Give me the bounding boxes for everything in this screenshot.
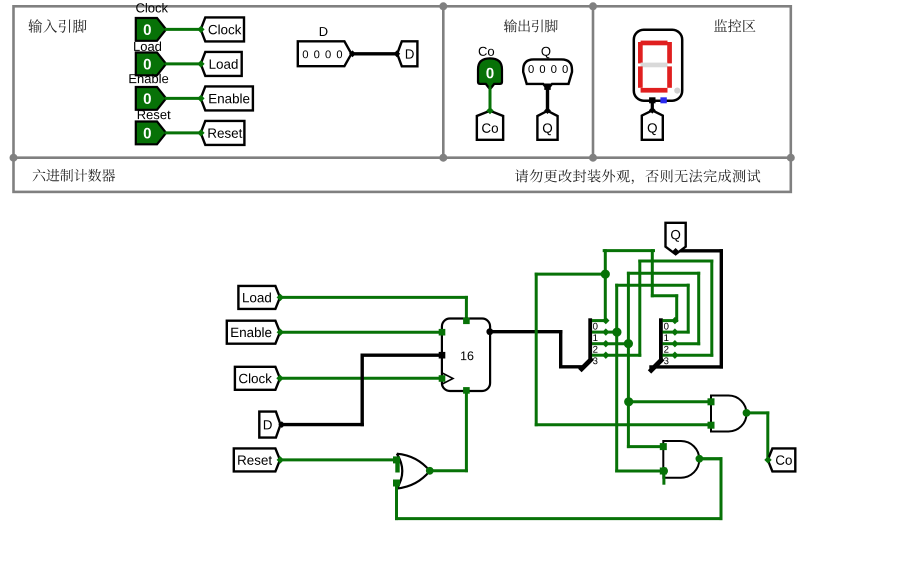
wire xyxy=(604,251,607,321)
port pad xyxy=(708,398,715,405)
tunnel Q xyxy=(666,223,686,254)
wire junction xyxy=(743,409,751,417)
label Reset xyxy=(138,110,171,119)
wire xyxy=(697,273,700,343)
wire xyxy=(351,52,397,55)
wire xyxy=(561,365,582,368)
connection port xyxy=(671,352,678,359)
tunnel Reset xyxy=(234,448,280,471)
wire xyxy=(280,377,442,380)
connection port xyxy=(602,328,609,335)
input pin Clock xyxy=(136,18,166,41)
connection port xyxy=(671,328,678,335)
wire xyxy=(640,260,712,263)
connection port xyxy=(393,50,400,57)
label D xyxy=(320,27,328,36)
wire xyxy=(166,131,201,134)
wire xyxy=(465,297,468,319)
splitter S1 (left, fan-out) xyxy=(588,318,592,360)
wire xyxy=(615,285,618,332)
wire xyxy=(604,249,653,252)
label Enable xyxy=(129,74,168,84)
tunnel Q xyxy=(642,110,663,139)
tunnel Load xyxy=(201,52,242,76)
connection port xyxy=(197,60,204,67)
frame junction dot xyxy=(589,2,597,10)
wire xyxy=(699,457,721,460)
port pad xyxy=(439,375,446,382)
connection port xyxy=(602,340,609,347)
frame junction dot xyxy=(589,154,597,162)
wire xyxy=(652,294,676,297)
wire xyxy=(430,469,467,472)
tunnel D xyxy=(397,41,417,66)
wire xyxy=(166,28,201,31)
title 输入引脚 xyxy=(28,19,86,33)
panel frame outer xyxy=(14,6,791,192)
wire xyxy=(559,332,562,367)
connection port xyxy=(671,340,678,347)
frame junction dot xyxy=(10,154,18,162)
wire xyxy=(362,354,442,357)
connection port xyxy=(602,352,609,359)
tunnel Co xyxy=(477,111,503,140)
port pad xyxy=(439,352,446,359)
and-gate G2 xyxy=(711,396,747,432)
wire xyxy=(675,354,712,357)
port pad xyxy=(463,318,470,325)
label Q xyxy=(542,47,551,59)
input pin Load xyxy=(136,53,166,76)
port pad xyxy=(660,468,667,475)
wire xyxy=(465,391,468,471)
wire xyxy=(720,251,723,367)
wire xyxy=(628,445,663,448)
splitter S2 (right, combiner) xyxy=(659,318,663,360)
frame junction dot xyxy=(787,154,795,162)
wire xyxy=(627,344,630,402)
counter U2 (mod-16) xyxy=(442,319,490,392)
wire xyxy=(627,402,630,447)
wire xyxy=(710,261,713,355)
connection port xyxy=(276,375,283,382)
wire xyxy=(535,274,538,425)
frame junction dot xyxy=(439,2,447,10)
wire xyxy=(280,331,442,334)
wire xyxy=(617,284,689,287)
connection port xyxy=(349,50,356,57)
wire xyxy=(361,355,364,424)
wire xyxy=(166,62,201,65)
wire xyxy=(675,296,678,321)
connection port xyxy=(764,456,771,463)
wire xyxy=(638,261,641,355)
wire junction xyxy=(426,467,434,475)
port pad xyxy=(660,443,667,450)
label Co xyxy=(479,47,494,56)
port pad xyxy=(439,329,446,336)
port pad xyxy=(463,387,470,394)
wire xyxy=(629,400,711,403)
wire xyxy=(166,97,201,100)
connection port xyxy=(277,294,284,301)
wire xyxy=(651,103,654,109)
wire xyxy=(662,471,665,483)
wire xyxy=(699,457,721,460)
connection port xyxy=(197,26,204,33)
tunnel Clock xyxy=(235,367,280,390)
wire xyxy=(675,331,688,334)
wire xyxy=(281,423,363,426)
wire junction xyxy=(601,270,610,279)
connection port xyxy=(672,248,680,256)
port pad xyxy=(393,456,400,463)
connection port xyxy=(277,456,284,463)
wire xyxy=(397,517,722,520)
input pin Reset xyxy=(136,122,166,145)
connection port xyxy=(197,129,204,136)
tunnel Load xyxy=(238,286,280,309)
wire xyxy=(489,88,492,109)
and-gate G3 xyxy=(663,441,699,478)
tunnel Enable xyxy=(201,86,253,110)
7-segment display U1 xyxy=(634,30,682,104)
label Clock xyxy=(136,3,168,13)
wire xyxy=(720,459,723,519)
connection port xyxy=(197,95,204,102)
wire xyxy=(651,251,654,296)
tunnel D xyxy=(259,412,280,438)
wire xyxy=(490,330,561,333)
wire xyxy=(651,365,721,368)
connection port xyxy=(649,107,656,114)
port pad xyxy=(708,422,715,429)
wire xyxy=(687,285,690,332)
tunnel Reset xyxy=(201,121,245,145)
title 输出引脚 xyxy=(504,19,558,32)
wire xyxy=(280,458,397,461)
connection port xyxy=(486,107,493,114)
wire xyxy=(536,423,711,426)
wire junction xyxy=(624,397,633,406)
wire xyxy=(676,249,722,252)
wire junction xyxy=(612,328,621,337)
connection port xyxy=(602,317,609,324)
wire xyxy=(536,273,605,276)
wire xyxy=(628,272,698,275)
wire junction xyxy=(660,467,668,475)
wire xyxy=(606,331,617,334)
title 监控区 xyxy=(714,19,755,32)
output pin Q (4-bit) xyxy=(523,59,572,89)
wire xyxy=(617,470,664,473)
wire xyxy=(615,332,618,471)
input pin Enable xyxy=(136,87,166,110)
label Load xyxy=(134,42,161,52)
wire junction xyxy=(624,339,633,348)
or-gate G1 xyxy=(397,454,430,489)
frame junction dot xyxy=(439,154,447,162)
tunnel Enable xyxy=(227,321,280,344)
wire xyxy=(395,483,398,519)
tunnel Q xyxy=(537,111,557,140)
wire xyxy=(766,413,769,460)
wire xyxy=(606,354,640,357)
label 六进制计数器 xyxy=(33,169,116,182)
output pin Co xyxy=(478,58,502,89)
wire xyxy=(280,296,466,299)
connection port xyxy=(671,317,678,324)
connection port xyxy=(544,107,551,114)
wire xyxy=(747,411,768,414)
wire xyxy=(606,342,629,345)
input pin D (4-bit) xyxy=(298,41,352,66)
connection port xyxy=(278,421,285,428)
port pad xyxy=(393,480,400,487)
wire junction xyxy=(696,455,704,463)
connection port xyxy=(277,329,284,336)
tunnel Clock xyxy=(201,17,244,41)
wire xyxy=(627,273,630,343)
tunnel Co xyxy=(768,448,796,471)
wire xyxy=(675,342,699,345)
wire xyxy=(546,87,549,109)
port pad xyxy=(544,84,550,90)
label 请勿更改封装外观，否则无法完成测试 xyxy=(515,169,760,184)
